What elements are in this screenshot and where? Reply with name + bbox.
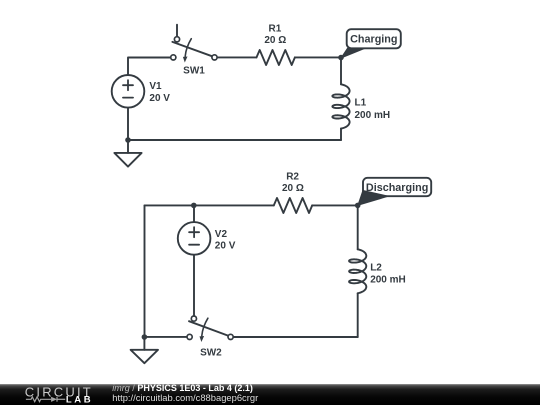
- logo diode: [51, 397, 57, 402]
- ground G1: [114, 153, 141, 167]
- switch SW1 terminal left: [171, 55, 176, 60]
- svg-text:http://circuitlab.com/c88bagep: http://circuitlab.com/c88bagep6crgr: [112, 392, 258, 403]
- switch SW2 arrow: [202, 318, 208, 336]
- wire bottom circuit2 left: [145, 336, 188, 338]
- wire V1 bottom: [127, 108, 129, 140]
- svg-text:Charging: Charging: [350, 34, 397, 46]
- inductor L2: [357, 205, 359, 249]
- svg-text:R2: R2: [286, 171, 299, 182]
- switch SW2 terminal left: [187, 334, 192, 339]
- flag Charging: [341, 29, 401, 58]
- node dot N1: [338, 55, 344, 61]
- svg-text:20 V: 20 V: [215, 240, 236, 251]
- wire V2 bottom: [193, 255, 195, 316]
- inductor L1: [340, 58, 342, 85]
- switch SW1 arrow: [185, 39, 191, 57]
- wire bottom circuit2 right: [233, 336, 358, 338]
- logo squiggle: [26, 397, 65, 402]
- wire bottom circuit1: [128, 139, 341, 141]
- svg-text:200 mH: 200 mH: [355, 110, 391, 121]
- svg-text:200 mH: 200 mH: [370, 275, 406, 286]
- switch SW1 terminal right: [212, 55, 217, 60]
- wire R1 to node: [295, 56, 341, 58]
- svg-text:V2: V2: [215, 229, 228, 240]
- V2 minus sign: [189, 244, 199, 246]
- wire R2 to node: [312, 204, 358, 206]
- switch SW1 terminal top: [174, 37, 179, 42]
- V1 plus sign: [123, 80, 133, 90]
- switch SW2 terminal right: [228, 334, 233, 339]
- svg-text:V1: V1: [149, 81, 162, 92]
- switch SW1 lever: [172, 42, 212, 56]
- ground G2: [131, 350, 158, 363]
- wire SW1 to R1: [217, 56, 256, 58]
- switch SW1 stub: [176, 25, 178, 37]
- junction dot J1: [125, 137, 131, 143]
- svg-text:20 Ω: 20 Ω: [264, 35, 286, 46]
- resistor R2: [274, 198, 312, 213]
- flag Discharging: [358, 178, 431, 206]
- source V2: [178, 222, 211, 255]
- switch SW1 arrowhead: [183, 57, 188, 63]
- svg-text:Discharging: Discharging: [366, 182, 428, 194]
- wire V2 top: [193, 205, 195, 222]
- resistor R1: [257, 50, 295, 65]
- ground G2 stem: [143, 337, 145, 350]
- svg-text:SW1: SW1: [183, 66, 205, 77]
- V2 plus sign: [189, 227, 199, 237]
- svg-text:R1: R1: [269, 23, 282, 34]
- ground G1 stem: [127, 140, 129, 153]
- switch SW2 arrowhead: [200, 336, 205, 342]
- switch SW2 lever: [189, 321, 228, 335]
- wire top circuit2: [145, 204, 274, 206]
- junction dot J2: [191, 203, 197, 209]
- svg-text:LAB: LAB: [66, 395, 93, 405]
- node dot N2: [355, 203, 361, 209]
- svg-text:20 Ω: 20 Ω: [282, 183, 304, 194]
- svg-text:20 V: 20 V: [149, 93, 170, 104]
- junction dot J3: [142, 334, 148, 340]
- svg-text:L2: L2: [370, 262, 382, 273]
- source V1: [112, 75, 145, 108]
- svg-text:SW2: SW2: [200, 348, 222, 359]
- wire V1 top to SW1: [128, 58, 171, 76]
- svg-text:L1: L1: [355, 98, 367, 109]
- wire left rail circuit2: [144, 205, 146, 337]
- V1 minus sign: [123, 97, 133, 99]
- switch SW2 terminal top: [191, 316, 196, 321]
